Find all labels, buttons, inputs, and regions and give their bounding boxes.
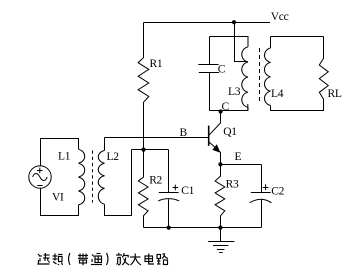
svg-text:L1: L1 (58, 151, 71, 163)
svg-text:R2: R2 (149, 175, 162, 187)
wire bias node line (132, 149, 169, 151)
core dashed line 1 (92, 151, 94, 203)
transistor Q1 (208, 126, 210, 146)
svg-text:RL: RL (328, 88, 342, 100)
wire source bottom (41, 188, 79, 215)
capacitor C1 (168, 150, 170, 193)
resistor RL (319, 37, 328, 111)
char 大 (130, 254, 141, 266)
char 带 (78, 254, 88, 266)
svg-text:L2: L2 (107, 151, 120, 163)
char 选 (38, 253, 50, 264)
svg-text:R3: R3 (226, 179, 239, 191)
wire Vcc rail (144, 22, 271, 24)
wire tank bottom (210, 104, 248, 111)
wire L2 bottom riser (105, 150, 132, 216)
resistor R3 (215, 165, 225, 228)
node Vcc tap junction (232, 20, 236, 24)
wire source top (41, 139, 79, 166)
capacitor C2 (261, 165, 263, 193)
node C1 ground junction (167, 226, 171, 230)
svg-text:Q1: Q1 (223, 126, 237, 138)
core dashed line 2 (259, 48, 261, 104)
wire L4 top (271, 36, 324, 38)
inductor L2 (104, 138, 106, 151)
node ground junction (218, 226, 222, 230)
svg-text:R1: R1 (150, 58, 163, 70)
svg-text:C: C (222, 101, 230, 113)
inductor L4 (270, 37, 272, 49)
wire tank top (210, 37, 249, 47)
node emitter E (218, 162, 222, 166)
svg-text:C2: C2 (271, 185, 284, 197)
inductor L3 (242, 47, 248, 111)
node collector C (219, 109, 223, 113)
capacitor C (209, 37, 211, 65)
char （ (69, 253, 71, 265)
char ） (107, 253, 109, 265)
resistor R1 (138, 23, 149, 150)
svg-text:E: E (235, 151, 242, 163)
wire bottom rail (144, 227, 262, 229)
svg-text:L4: L4 (271, 88, 284, 100)
wire L4 bottom (271, 106, 324, 111)
svg-text:Vcc: Vcc (271, 11, 289, 23)
node bias junction (141, 148, 145, 152)
caption 选频（带通）放大电路 drawn as strokes (38, 253, 168, 265)
char 通 (91, 254, 102, 265)
svg-text:L3: L3 (228, 86, 241, 98)
char 路 (157, 254, 168, 265)
char 放 (116, 253, 129, 265)
svg-text:C1: C1 (181, 185, 194, 197)
voltage source VI (29, 166, 51, 188)
svg-text:B: B (180, 127, 188, 139)
svg-text:C: C (218, 63, 226, 75)
ground (220, 228, 222, 242)
inductor L1 (79, 149, 85, 205)
char 频 (53, 254, 63, 266)
svg-text:VI: VI (52, 191, 64, 203)
resistor R2 (138, 150, 148, 228)
char 电 (145, 254, 154, 265)
wire emitter line (221, 164, 262, 166)
wire base line B (105, 137, 209, 139)
wire Vcc tap to L3 (235, 23, 248, 62)
